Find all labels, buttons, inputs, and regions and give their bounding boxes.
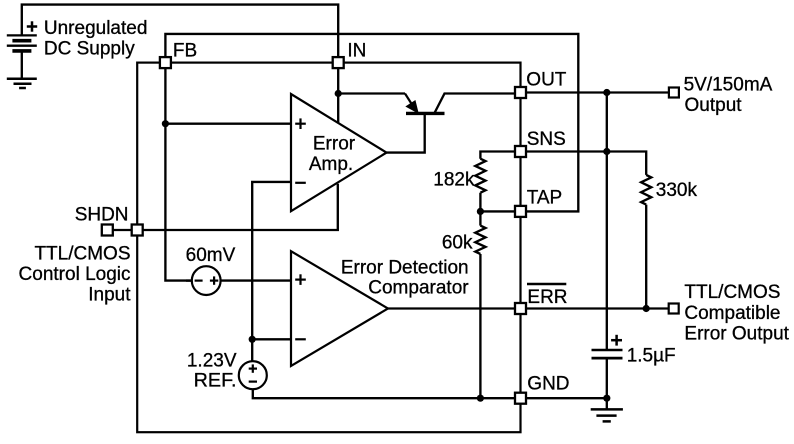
svg-text:330k: 330k <box>656 180 698 201</box>
wire: FB node to error amp + <box>165 123 291 125</box>
label: 5V/150mA Output <box>684 74 773 115</box>
op-amp U1 Error Amp <box>291 94 387 211</box>
error amp noninverting input mark (+) <box>295 118 306 129</box>
svg-text:SHDN: SHDN <box>75 204 129 225</box>
svg-text:TAP: TAP <box>527 187 563 208</box>
wire: IN pin to internal rail <box>337 68 339 94</box>
node: reference junction <box>249 336 256 343</box>
wire: 60mV source to comparator + <box>221 279 291 281</box>
svg-text:IN: IN <box>347 41 366 62</box>
label SNS <box>527 129 566 150</box>
wire: shutdown input <box>107 229 137 231</box>
svg-text:Error: Error <box>313 134 356 155</box>
ground (battery negative) <box>7 79 37 88</box>
svg-text:Amp.: Amp. <box>309 154 353 175</box>
label TAP <box>527 187 563 208</box>
wire: SNS internal to divider <box>480 152 515 159</box>
error amp inverting input mark (-) <box>295 182 306 184</box>
svg-text:DC Supply: DC Supply <box>44 39 135 60</box>
wire: Q1 base to error amp output <box>387 115 425 153</box>
wire: IN rail to error amp supply <box>337 94 339 123</box>
node: FB junction <box>162 120 169 127</box>
resistor R3 182k <box>475 159 485 193</box>
wire: GND pin to external ground <box>527 397 607 399</box>
wire: tap node to TAP pin <box>480 210 515 212</box>
svg-text:FB: FB <box>173 41 197 62</box>
transistor Q1 collector lead <box>434 94 515 114</box>
wire: SNS pin to 330k <box>527 152 646 175</box>
wire: reference return to GND <box>253 389 515 398</box>
wire: error amp inverting input to reference node <box>252 182 291 339</box>
label ERR with overbar <box>527 284 568 308</box>
resistor R4 60k <box>475 226 485 254</box>
comparator inverting input mark (-) <box>295 338 306 340</box>
battery plus polarity mark <box>27 21 37 31</box>
comparator noninverting input mark (+) <box>295 274 306 285</box>
pin FB <box>160 57 171 68</box>
label: 330k <box>656 180 698 201</box>
battery B1 (Unregulated DC Supply) <box>7 35 37 78</box>
svg-text:Output: Output <box>685 95 743 116</box>
label SHDN <box>75 204 129 225</box>
transistor Q1 emitter lead with arrow <box>405 94 418 113</box>
wire: IN junction to Q1 emitter <box>338 92 405 94</box>
wire: battery positive rail to IN pin <box>22 5 338 58</box>
svg-text:TTL/CMOS: TTL/CMOS <box>34 243 130 264</box>
resistor R2 330k <box>641 175 651 205</box>
svg-text:SNS: SNS <box>527 129 566 150</box>
capacitor plus polarity mark <box>611 335 622 346</box>
svg-text:OUT: OUT <box>526 69 567 90</box>
svg-text:REF.: REF. <box>194 370 237 392</box>
wire: ERR pin to error output terminal <box>527 307 669 309</box>
label: Unregulated DC Supply <box>44 18 148 59</box>
IC boundary box <box>137 63 520 433</box>
node: 60k ground junction <box>477 395 484 402</box>
terminal: error output <box>669 304 679 314</box>
transistor Q1 base bar <box>406 112 445 115</box>
pin IN <box>333 57 344 68</box>
svg-text:60mV: 60mV <box>186 245 236 266</box>
svg-text:182k: 182k <box>433 169 475 190</box>
terminal: 5V/150mA output <box>669 88 679 98</box>
svg-text:5V/150mA: 5V/150mA <box>684 74 773 95</box>
svg-text:Comparator: Comparator <box>368 278 469 299</box>
svg-text:Control Logic: Control Logic <box>19 264 131 285</box>
wire: comparator output to ERR pin <box>388 307 515 309</box>
label: 1.23V REF. <box>187 350 237 391</box>
node: IN internal junction <box>335 90 342 97</box>
label: TTL/CMOS Compatible Error Output <box>684 282 789 344</box>
terminal: SHDN input <box>102 225 113 236</box>
label IN <box>347 41 366 62</box>
node: GND junction <box>603 395 610 402</box>
node: divider tap junction <box>477 208 484 215</box>
label: Error Amp. <box>309 134 356 176</box>
svg-text:Unregulated: Unregulated <box>44 18 148 39</box>
wire: output rail down to capacitor <box>606 93 608 351</box>
wire: 330k to ERR line <box>645 205 647 309</box>
svg-text:1.5µF: 1.5µF <box>627 345 676 366</box>
svg-text:60k: 60k <box>442 232 473 253</box>
wire: tap node to 60k <box>479 211 481 225</box>
node: SNS junction on output rail <box>603 148 610 155</box>
pin SNS <box>515 146 526 157</box>
wire: SHDN pin to error amp <box>143 184 338 230</box>
label OUT <box>526 69 567 90</box>
pin GND <box>515 393 526 404</box>
pin OUT <box>515 87 526 98</box>
svg-text:Input: Input <box>88 284 131 305</box>
wire: FB node down to 60mV source <box>165 124 191 281</box>
node: 330k to ERR junction <box>643 305 650 312</box>
svg-text:Error Output: Error Output <box>684 324 789 345</box>
wire: 182k to tap node <box>479 193 481 212</box>
svg-text:1.23V: 1.23V <box>187 350 237 371</box>
ground (output) <box>591 409 623 421</box>
wire: 60k to ground line <box>479 254 481 398</box>
pin SHDN <box>132 225 143 236</box>
pin ERR <box>515 303 526 314</box>
wire: FB pin down to divider node <box>164 68 166 124</box>
voltage source V2 1.23V reference <box>239 361 267 389</box>
svg-text:GND: GND <box>527 373 569 394</box>
pin TAP <box>515 206 526 217</box>
label: TTL/CMOS Control Logic Input <box>19 243 132 305</box>
label: 182k <box>433 169 475 190</box>
svg-text:Error Detection: Error Detection <box>341 257 469 278</box>
wire: FB to TAP external feedback <box>165 34 578 212</box>
label: 1.5uF <box>627 345 676 366</box>
node: output junction <box>603 89 610 96</box>
op-amp U2 Error Detection Comparator <box>291 251 388 366</box>
label: 60mV <box>186 245 236 266</box>
svg-text:Compatible: Compatible <box>684 303 780 324</box>
svg-text:ERR: ERR <box>527 287 567 308</box>
label GND <box>527 373 569 394</box>
capacitor C1 1.5uF <box>592 350 623 409</box>
voltage source V1 60mV <box>192 266 221 295</box>
wire: OUT pin to output terminal <box>527 91 669 93</box>
wire: reference node to 1.23V ref <box>251 339 253 361</box>
wire: reference node to comparator - <box>252 338 291 340</box>
svg-text:TTL/CMOS: TTL/CMOS <box>684 282 780 303</box>
label FB <box>173 41 197 62</box>
label: Error Detection Comparator <box>341 257 469 298</box>
wire: FB branch to 60mV source <box>186 279 192 281</box>
label: 60k <box>442 232 473 253</box>
